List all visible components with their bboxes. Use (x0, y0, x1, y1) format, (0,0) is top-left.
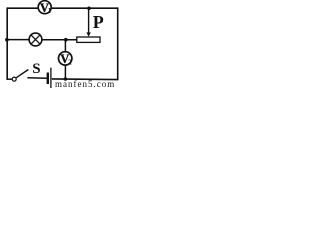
voltmeter U2 (V2) (58, 52, 72, 67)
node junction on top rail (wiper branch) (87, 7, 91, 11)
lamp L1 (29, 33, 42, 46)
switch S lever (16, 70, 28, 78)
wire top rail (7, 7, 38, 9)
wire left rail (6, 7, 8, 80)
rheostat P body (77, 37, 100, 42)
switch S contact circle (12, 77, 16, 81)
voltmeter U1 (V1) (38, 1, 52, 16)
wire top rail right of V1 (51, 7, 117, 9)
svg-text:2: 2 (68, 58, 72, 66)
node junction lamp-rheostat / V2 tap (64, 38, 68, 42)
wire bottom rail right of battery (52, 78, 119, 81)
svg-text:S: S (32, 61, 40, 77)
battery positive long plate (50, 68, 52, 88)
wire switch to battery (27, 77, 46, 79)
wire V2 lower stub (64, 65, 66, 79)
wire lamp to rheostat (42, 39, 77, 41)
rheostat wiper wire (88, 9, 90, 34)
svg-text:P: P (93, 12, 104, 32)
wire left rail to lamp (7, 39, 29, 41)
svg-text:manfen5.com: manfen5.com (55, 79, 115, 89)
wire bottom-left corner to switch (7, 78, 13, 80)
node junction on bottom rail (V2 return) (64, 77, 68, 81)
wire right rail (117, 7, 119, 80)
wire V2 upper stub (64, 40, 66, 52)
rheostat wiper arrowhead (86, 32, 90, 36)
battery negative short plate (47, 73, 49, 85)
svg-text:1: 1 (48, 7, 52, 15)
node junction on left rail (5, 38, 9, 42)
